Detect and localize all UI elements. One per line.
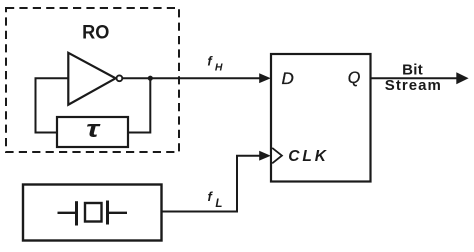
svg-text:L: L (215, 198, 222, 210)
svg-text:CLK: CLK (288, 148, 328, 165)
svg-text:D: D (282, 69, 294, 88)
svg-text:Q: Q (348, 68, 361, 87)
svg-text:Bit: Bit (402, 61, 423, 78)
svg-text:H: H (215, 62, 223, 74)
svg-text:Stream: Stream (385, 77, 441, 94)
svg-text:RO: RO (82, 23, 109, 44)
svg-text:τ: τ (86, 116, 101, 144)
